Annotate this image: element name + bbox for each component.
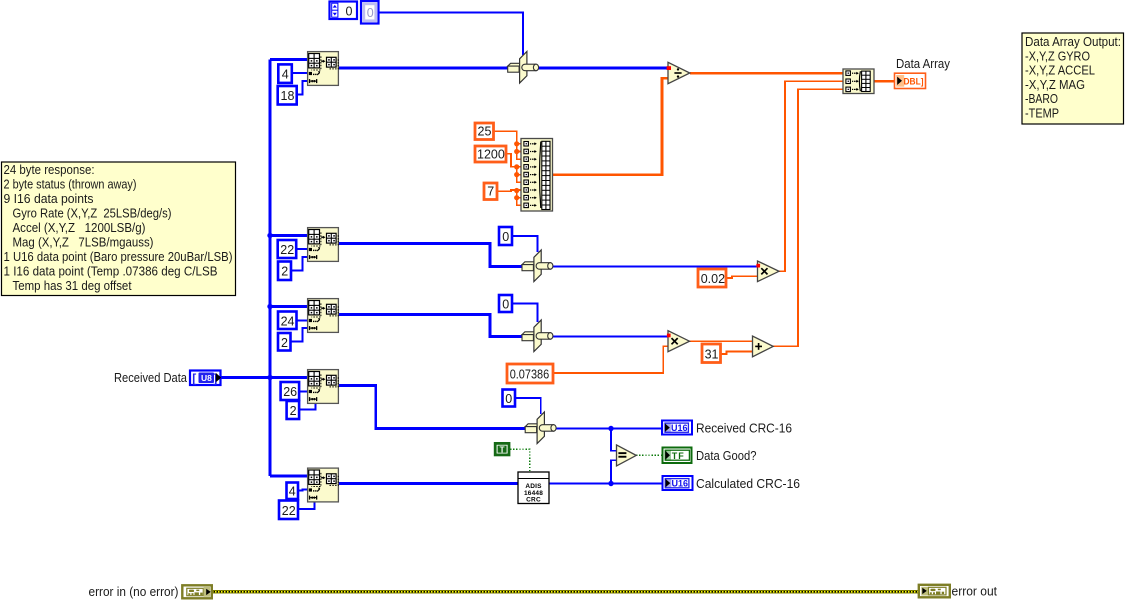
svg-text:Data Array Output:: Data Array Output: xyxy=(1025,35,1121,49)
svg-text:Calculated CRC-16: Calculated CRC-16 xyxy=(696,477,800,491)
array subset AS4 xyxy=(308,370,339,404)
svg-text:Data Array: Data Array xyxy=(896,57,951,71)
wire: build9 inputs from 7 xyxy=(497,190,521,205)
comment box: 24 byte response xyxy=(2,162,236,296)
svg-text:18: 18 xyxy=(281,89,295,103)
wire: junction to equals input 2 xyxy=(611,460,617,483)
svg-text:31: 31 xyxy=(705,348,719,362)
svg-text:1 I16 data point (Temp .07386: 1 I16 data point (Temp .07386 deg C/LSB xyxy=(4,265,218,279)
wire: TC3 out to multiply3 xyxy=(553,336,668,338)
svg-text:0: 0 xyxy=(367,6,374,20)
numeric constant 4 row5 xyxy=(287,483,299,500)
wire: constant 2 to AS3 length xyxy=(291,328,308,342)
boolean constant T xyxy=(495,443,509,455)
svg-text:24: 24 xyxy=(281,314,295,328)
wire: TC1 out to divide xyxy=(539,67,669,70)
svg-text:U8: U8 xyxy=(201,373,212,383)
array type constant element xyxy=(361,1,379,24)
numeric constant 2 row4 xyxy=(287,401,300,419)
wire: constant 0 to TC2 type xyxy=(512,236,538,252)
svg-text:0.07386: 0.07386 xyxy=(510,368,550,382)
svg-text:Received Data: Received Data xyxy=(114,371,187,385)
svg-text:24 byte response:: 24 byte response: xyxy=(4,163,95,177)
numeric constant 4 xyxy=(278,64,292,83)
numeric constant 24 xyxy=(278,312,297,330)
wire: constant 22 to AS5 length xyxy=(298,503,315,510)
wire: build9 inputs from 1200 xyxy=(506,154,521,183)
svg-text:0: 0 xyxy=(502,230,509,244)
wire: AS4 out to TC4 xyxy=(339,386,525,429)
wire: TC4 out to Received CRC indicator xyxy=(556,428,662,430)
multiply node row3 xyxy=(667,331,690,352)
wire: received data main vertical xyxy=(222,60,308,477)
divide node xyxy=(667,62,690,83)
svg-text:2: 2 xyxy=(290,404,297,418)
build array 9 inputs xyxy=(521,139,553,212)
numeric constant 0 row3 xyxy=(499,295,512,312)
subVI ADIS 16448 CRC xyxy=(518,472,549,504)
wire: constant 0 to TC3 type xyxy=(512,304,538,323)
wire: constant 22 to AS2 index xyxy=(296,248,307,250)
node junction dots blue xyxy=(267,233,613,486)
svg-text:-TEMP: -TEMP xyxy=(1025,107,1059,121)
svg-text:error out: error out xyxy=(952,585,998,599)
wire: multiply2 out to build2 input2 xyxy=(779,81,844,271)
numeric constant 22 xyxy=(278,240,297,258)
wire: equals out to TF indicator xyxy=(636,454,662,456)
numeric constant 0 row4 xyxy=(503,390,516,407)
wire: AS3 out to TC3 xyxy=(339,315,522,337)
numeric constant 7 xyxy=(484,183,497,200)
comment box: Data Array Output xyxy=(1022,33,1124,124)
array subset AS5 xyxy=(308,468,339,502)
wire: constant 2 to AS2 length xyxy=(291,257,307,271)
type cast TC3 xyxy=(522,320,553,352)
svg-text:TF: TF xyxy=(672,451,685,461)
svg-text:ADIS: ADIS xyxy=(525,483,542,490)
svg-text:Accel (X,Y,Z 1200LSB/g): Accel (X,Y,Z 1200LSB/g) xyxy=(13,221,146,235)
svg-text:25: 25 xyxy=(478,125,492,139)
numeric constant 1200 xyxy=(475,146,506,162)
svg-text:1200: 1200 xyxy=(477,147,505,161)
indicator Data Array DBL xyxy=(895,57,951,89)
wire: error wire xyxy=(212,590,919,593)
numeric constant 22 row5 xyxy=(279,501,298,520)
wire: constant 2 to AS4 length xyxy=(299,404,316,410)
numeric constant 0.02 xyxy=(698,269,726,287)
wire: constant 4 to AS5 index xyxy=(298,490,308,491)
svg-text:4: 4 xyxy=(282,68,289,82)
numeric constant 0 row2 xyxy=(499,227,512,245)
array subset AS3 xyxy=(308,299,339,333)
array subset AS1 xyxy=(308,52,339,86)
indicator error out xyxy=(919,585,998,599)
wire: T constant to CRC vi xyxy=(510,449,530,472)
multiply node row2 xyxy=(756,261,779,282)
svg-text:22: 22 xyxy=(280,243,294,257)
wire: 0.07386 to multiply3 xyxy=(553,346,668,373)
svg-text:T: T xyxy=(500,445,505,454)
wire: array type constant to TC1 type input xyxy=(379,13,523,56)
wire: build9 inputs from 25 xyxy=(494,131,522,159)
numeric constant 2 xyxy=(278,262,291,281)
wire: constant 26 to AS4 index xyxy=(299,391,307,393)
wire: CRC vi out to Calculated CRC indicator xyxy=(549,483,662,485)
indicator Calculated CRC-16 xyxy=(663,476,801,491)
wire: constant 0 to TC4 type xyxy=(515,398,541,414)
wire: build9 out to divide input2 xyxy=(553,78,669,174)
svg-text:-BARO: -BARO xyxy=(1025,92,1058,106)
wire: divide out to build2 xyxy=(690,72,843,75)
wire: plus out to build2 input3 xyxy=(773,89,844,346)
svg-text:7: 7 xyxy=(487,185,494,199)
svg-text:Mag (X,Y,Z 7LSB/mgauss): Mag (X,Y,Z 7LSB/mgauss) xyxy=(13,236,154,250)
build array 2 node xyxy=(843,69,874,94)
type cast TC2 xyxy=(522,250,553,282)
control error in xyxy=(89,585,212,599)
type cast TC4 xyxy=(525,412,556,444)
svg-text:error in (no error): error in (no error) xyxy=(89,585,179,599)
svg-text:4: 4 xyxy=(289,485,296,499)
wire: AS2 out to TC2 xyxy=(339,244,522,267)
svg-text:2 byte status (thrown away): 2 byte status (thrown away) xyxy=(4,178,137,192)
indicator Received CRC-16 xyxy=(662,421,792,436)
svg-text:Temp has 31 deg offset: Temp has 31 deg offset xyxy=(13,279,132,293)
svg-text:-X,Y,Z ACCEL: -X,Y,Z ACCEL xyxy=(1025,64,1095,78)
wire: junction to equals input 1 xyxy=(611,429,617,451)
svg-text:0: 0 xyxy=(502,298,509,312)
svg-text:Gyro Rate (X,Y,Z 25LSB/deg/s): Gyro Rate (X,Y,Z 25LSB/deg/s) xyxy=(13,207,172,221)
svg-text:2: 2 xyxy=(281,336,288,350)
wire: build2 out to DBL indicator xyxy=(874,80,895,83)
svg-text:0.02: 0.02 xyxy=(701,272,725,286)
wire: multiply3 out to plus xyxy=(689,340,753,342)
numeric constant 31 xyxy=(702,344,721,363)
type cast TC1 xyxy=(508,52,539,84)
wire: AS1 out to TC1 xyxy=(339,67,508,70)
svg-text:-X,Y,Z MAG: -X,Y,Z MAG xyxy=(1025,78,1085,92)
svg-text:26: 26 xyxy=(283,385,297,399)
svg-text:[: [ xyxy=(192,371,196,385)
wire: constant 24 to AS3 index xyxy=(297,320,308,322)
wire: constant 4 to AS1 index xyxy=(292,72,307,74)
array type constant index display xyxy=(330,2,358,20)
svg-text:Received CRC-16: Received CRC-16 xyxy=(696,422,792,436)
svg-text:-X,Y,Z GYRO: -X,Y,Z GYRO xyxy=(1025,49,1090,63)
svg-text:0: 0 xyxy=(505,392,512,406)
plus node xyxy=(753,336,774,357)
numeric constant 0.07386 xyxy=(507,364,553,383)
array subset AS2 xyxy=(308,228,339,262)
svg-text:DBL]: DBL] xyxy=(904,77,924,87)
svg-text:Data Good?: Data Good? xyxy=(696,449,757,463)
numeric constant 25 xyxy=(475,123,494,140)
svg-text:2: 2 xyxy=(281,265,288,279)
wire: TC2 out to multiply2 xyxy=(553,266,758,268)
numeric constant 26 xyxy=(281,382,300,400)
numeric constant 2 row3 xyxy=(278,333,291,351)
wire: AS5 out to CRC vi xyxy=(339,482,518,485)
equals node xyxy=(617,445,637,466)
control Received Data xyxy=(114,371,221,386)
node junction dots orange xyxy=(514,141,519,200)
numeric constant 18 xyxy=(278,86,297,105)
svg-text:0: 0 xyxy=(346,5,353,19)
svg-text:9 I16 data points: 9 I16 data points xyxy=(4,192,94,206)
svg-text:CRC: CRC xyxy=(526,497,541,504)
wire: 0.02 to multiply2 xyxy=(726,276,758,278)
wire: 31 to plus input2 xyxy=(721,352,753,355)
indicator Data Good TF xyxy=(663,448,757,464)
wire: constant 18 to AS1 length xyxy=(297,81,308,95)
svg-text:1 U16 data point (Baro pressur: 1 U16 data point (Baro pressure 20uBar/L… xyxy=(4,250,233,264)
svg-text:22: 22 xyxy=(282,504,296,518)
